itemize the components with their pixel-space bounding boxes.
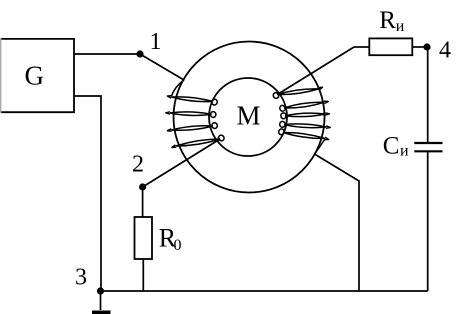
wire node 1 to primary winding (140, 54, 184, 80)
svg-text:1: 1 (150, 29, 162, 55)
wire node 4 to capacitor (427, 47, 429, 143)
ground (92, 291, 111, 314)
svg-text:и: и (400, 143, 409, 160)
wire G to node 3 (left vertical) (74, 96, 101, 291)
transformer core M outer circle (174, 42, 325, 193)
svg-text:C: C (383, 132, 400, 159)
node 3 (75, 265, 104, 295)
svg-text:R: R (379, 7, 396, 34)
wire node 2 to R0 (142, 187, 144, 217)
wire Rn to node 4 (412, 46, 427, 48)
primary winding (left side of core) (166, 80, 225, 148)
svg-text:M: M (237, 101, 261, 131)
wire capacitor to bottom rail (427, 151, 429, 291)
node 2 (132, 152, 146, 191)
wire secondary winding to bottom rail (315, 154, 360, 291)
resistor R0 (135, 217, 182, 259)
wire node 2 to primary winding (143, 139, 220, 187)
wire R0 to bottom rail (142, 259, 144, 291)
svg-text:и: и (396, 18, 405, 35)
node 4 (423, 38, 451, 64)
transformer core M inner circle (209, 78, 287, 156)
svg-text:2: 2 (132, 152, 144, 178)
svg-text:3: 3 (75, 265, 87, 291)
capacitor Cn (383, 132, 443, 159)
bottom rail wire (101, 290, 428, 292)
wire G to node 1 (74, 53, 140, 55)
generator G (1, 38, 74, 113)
resistor Rn (369, 7, 412, 55)
wire secondary winding to resistor Rn (277, 47, 369, 95)
svg-text:4: 4 (439, 38, 451, 64)
svg-text:G: G (25, 61, 45, 91)
node 1 (136, 29, 161, 58)
secondary winding (right side of core) (272, 87, 330, 154)
svg-text:0: 0 (174, 237, 182, 254)
